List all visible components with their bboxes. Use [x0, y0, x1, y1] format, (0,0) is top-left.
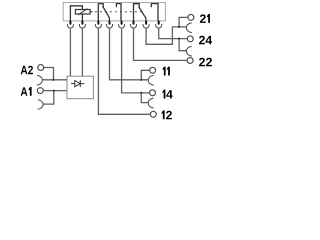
label 14 — [162, 90, 172, 99]
wire from socket 8 (contact2 NO to 24) — [159, 28, 187, 38]
label A2 — [21, 66, 33, 75]
socket cup 4 — [106, 24, 112, 28]
input protection box — [67, 76, 93, 99]
terminal 14 socket arc — [148, 98, 154, 108]
label 21 — [200, 14, 210, 23]
wire from socket 1 (coil A2 side) — [69, 28, 71, 76]
terminal A2 wire and bracket — [44, 68, 54, 80]
contact 1 moving blade — [103, 6, 110, 21]
diode V1 cathode bar — [79, 80, 81, 87]
socket cup 2 — [79, 24, 85, 28]
wire from socket 2 (coil A1 side) — [81, 28, 83, 76]
wire from socket 6 (contact2 NC to 22) — [134, 28, 187, 60]
terminal 22 screw circle — [187, 58, 193, 64]
contact 1 NO fixed contact — [116, 4, 121, 21]
terminal 14 screw circle — [150, 90, 156, 96]
wire A1 to protection box — [43, 90, 67, 92]
terminal 21 screw circle — [188, 14, 194, 20]
relay coil K1 bottom lead — [81, 14, 83, 21]
contact 2 NO fixed contact — [151, 4, 158, 21]
plug pin 6 (contact2 NC to 22) — [133, 22, 135, 24]
relay coil K1 body — [75, 10, 90, 15]
terminal 12 screw circle — [150, 111, 156, 117]
socket cup 1 — [67, 24, 73, 28]
junction dot 11 — [140, 79, 142, 81]
terminal 11 screw circle — [150, 67, 156, 73]
label 24 — [199, 36, 212, 45]
junction dot 24 — [178, 37, 180, 39]
terminal 11 branch to screw circle — [141, 70, 149, 80]
terminal A1 socket arc — [38, 100, 44, 110]
relay coil K1 leads — [70, 6, 82, 21]
mechanical link (dashed) — [90, 11, 93, 13]
terminal 14 branch to socket arc — [141, 93, 148, 103]
terminal A2 socket arc — [37, 75, 43, 85]
wire from socket 5 (contact1 NO to 14) — [122, 28, 150, 93]
label A1 — [21, 87, 32, 96]
plug pin 8 (contact2 NO to 24) — [158, 22, 160, 24]
terminal 24 branch to socket arc — [179, 39, 186, 51]
terminal 21 socket arc — [186, 23, 192, 33]
diode V1 triangle — [75, 81, 80, 87]
wire from socket 4 (contact1 common to 11) — [110, 28, 149, 80]
terminal 11 socket arc — [148, 75, 154, 85]
wire from socket 3 (contact1 NC to 12) — [98, 28, 149, 114]
wire A2 to protection box — [42, 79, 67, 81]
socket cup 5 — [119, 24, 125, 28]
label 11 — [163, 67, 170, 76]
plug pin 4 (contact1 common to 11) — [109, 22, 111, 24]
junction dot 14 — [140, 92, 142, 94]
plug pin 3 (contact1 NC to 12) — [97, 22, 99, 24]
terminal A1 screw circle — [37, 88, 43, 94]
terminal A2 screw circle — [38, 65, 44, 71]
label 22 — [199, 58, 212, 67]
contact 2 NC pole — [134, 4, 140, 21]
socket cup 3 — [95, 24, 101, 28]
terminal 21 branch to screw circle — [179, 17, 188, 27]
junction dot A2 — [52, 79, 54, 81]
label 12 — [162, 110, 172, 119]
plug pin 5 (contact1 NO to 14) — [121, 22, 123, 24]
junction dot 21 — [178, 26, 180, 28]
contact 1 NC pole — [98, 4, 103, 21]
terminal A1 bracket — [43, 91, 54, 105]
junction dot A1 — [53, 89, 55, 91]
plug pin 2 (coil A1 side) — [81, 22, 83, 24]
terminal 24 screw circle — [187, 36, 193, 42]
wire from socket 7 (contact2 common to 21) — [146, 27, 186, 44]
diode V1 anode line — [71, 83, 75, 85]
relay coil K1 slash — [78, 9, 87, 15]
terminal 24 socket arc — [186, 46, 192, 56]
plug pin 7 (contact2 common to 21) — [145, 22, 147, 24]
diode V1 cathode line — [80, 83, 84, 85]
socket cup 7 — [143, 24, 149, 28]
plug pin 1 (coil A2 side) — [69, 22, 71, 24]
socket cup 8 — [156, 24, 162, 28]
relay module outline box — [63, 3, 165, 21]
contact 2 moving blade — [139, 7, 146, 21]
socket cup 6 — [130, 24, 136, 28]
